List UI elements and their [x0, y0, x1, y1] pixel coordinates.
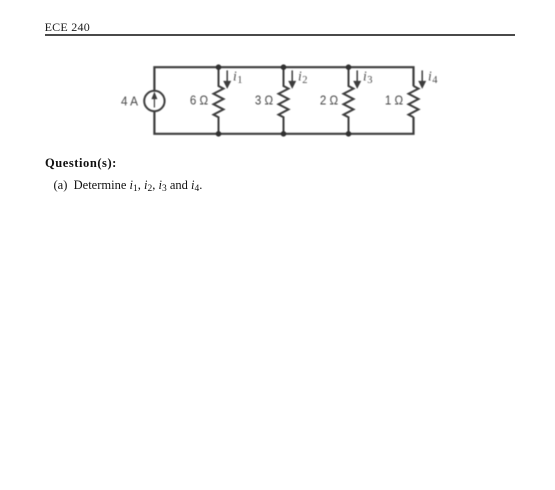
svg-text:2: 2 [302, 75, 307, 86]
svg-text:6 Ω: 6 Ω [190, 93, 208, 108]
svg-text:2 Ω: 2 Ω [320, 93, 338, 108]
svg-text:1: 1 [237, 75, 242, 86]
svg-text:3 Ω: 3 Ω [255, 93, 273, 108]
svg-text:4 A: 4 A [121, 94, 138, 109]
svg-text:1 Ω: 1 Ω [385, 93, 403, 108]
svg-text:4: 4 [432, 75, 438, 86]
svg-text:3: 3 [367, 75, 372, 86]
